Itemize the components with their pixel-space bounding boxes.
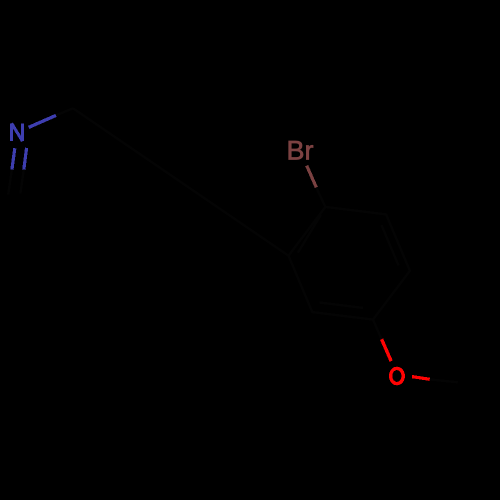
wire: dark half of Br-ring bond	[316, 187, 325, 207]
wire: dark-red half of Br-ring bond	[307, 166, 317, 188]
wire: dark half of O-ring bond	[373, 320, 382, 339]
svg-text:Br: Br	[287, 136, 314, 166]
benzene ring inner aromatic double-bond lines	[298, 215, 399, 308]
wire: dark carbon halves of N=C0 double bond	[8, 169, 24, 194]
wire: blue half of N-C1 single bond	[29, 115, 56, 127]
atom label N (drawn as strokes)	[12, 123, 23, 141]
atom label O (drawn as ellipse ring)	[391, 368, 404, 383]
wire: straight diyne chain C1 to ring vertex V6	[73, 108, 289, 255]
wire: dark half of O-CH3 bond	[430, 379, 458, 382]
wire: red half of O-ring bond	[382, 339, 392, 361]
wire: blue halves of N=C0 double bond	[12, 148, 15, 169]
wire: dark carbon half of N-C1 single bond	[56, 108, 74, 115]
wire: red half of O-CH3 bond	[412, 377, 430, 380]
benzene ring outline	[289, 207, 410, 320]
